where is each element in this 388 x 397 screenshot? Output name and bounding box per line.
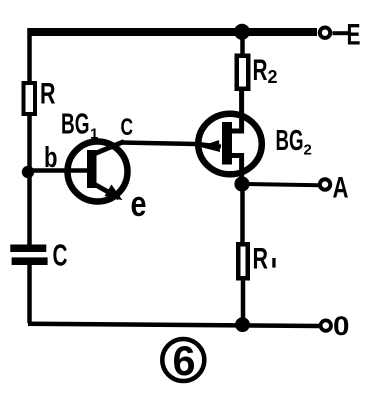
wire: top rail to R2 [240,30,245,54]
resistor R1 [238,244,248,278]
svg-text:0: 0 [333,311,350,341]
svg-text:e: e [131,183,147,224]
resistor R [24,83,36,114]
capacitor C plate 2 [12,257,48,265]
svg-text:R: R [253,243,269,276]
svg-text:6: 6 [173,337,196,384]
terminal 0 circle [321,320,331,330]
wire: top supply rail [28,28,317,36]
transistor BG2 left lead stroke [195,144,221,147]
transistor BG2 collector stroke (from R2 down into bar) [232,91,242,131]
wire: node to terminal A [246,184,319,185]
svg-text:2: 2 [268,67,278,87]
transistor BG1 emitter stroke [94,184,119,198]
transistor BG2 base bar [222,122,232,165]
svg-text:R: R [40,78,56,111]
svg-text:1: 1 [90,126,98,143]
wire: node A down to R1 [240,184,245,243]
terminal E circle [320,28,330,38]
svg-text:E: E [347,19,361,52]
wire: BG1 collector to BG2 [121,143,196,145]
wire: bottom rail [28,324,319,326]
transistor BG2 emitter stroke (from bar down to node A) [232,156,242,185]
transistor BG1 emitter arrowhead [105,185,123,201]
node: bottom junction dot [235,317,250,332]
svg-text:C: C [121,114,134,141]
svg-text:A: A [333,172,349,205]
wire: base wire to BG1 [28,168,89,173]
wire: left rail upper (top-left corner down to capacitor) [27,28,32,252]
svg-text:BG: BG [61,109,90,141]
transistor BG2 circle [198,114,262,175]
wire: left rail lower (capacitor down to bottom rail) [27,258,32,323]
svg-text:R: R [253,54,268,87]
svg-text:C: C [53,238,68,273]
label R1 subscript tick [272,258,275,268]
node b junction dot [22,166,34,178]
capacitor C plate 1 [10,245,46,253]
resistor R2 [237,56,249,89]
node: top junction dot [234,24,250,40]
transistor BG1 collector stroke [94,142,124,155]
terminal A circle [320,179,330,189]
figure number badge circle [162,339,204,381]
svg-text:2: 2 [304,142,312,159]
transistor BG1 circle [68,142,128,202]
svg-text:BG: BG [276,125,304,157]
transistor BG1 base bar [87,150,97,188]
transistor BG2 arrowhead [200,140,221,152]
wire: E terminal stub [333,31,349,35]
wire: R1 down to bottom rail [241,280,246,323]
node A junction dot [234,176,249,191]
